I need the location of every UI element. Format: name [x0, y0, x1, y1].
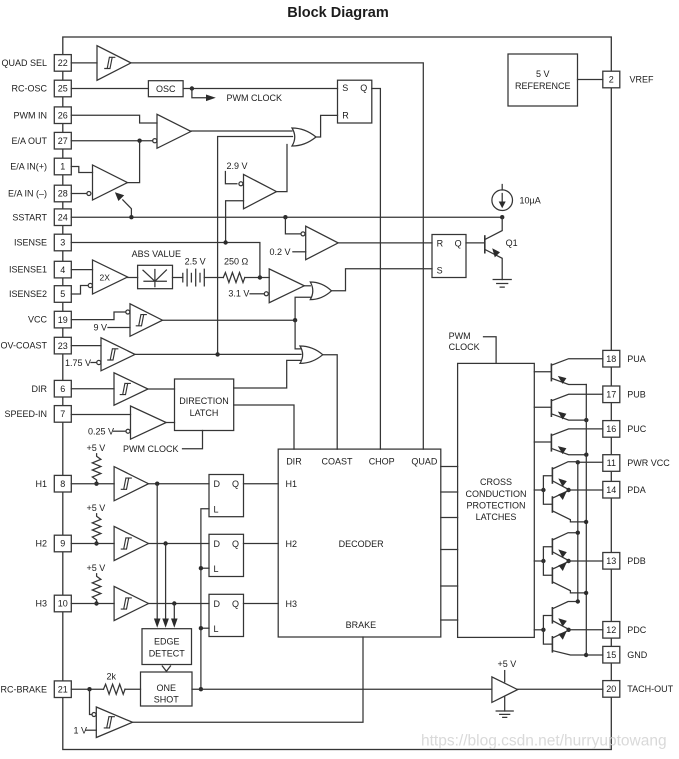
svg-text:CONDUCTION: CONDUCTION — [466, 489, 527, 499]
svg-text:1.75 V: 1.75 V — [65, 358, 91, 368]
wire H2 schmitt to D latch — [149, 543, 210, 545]
bubble OV-COAST comparator input — [97, 360, 101, 364]
wire pin26 PWM IN to E/A comparator — [71, 115, 157, 123]
svg-text:D: D — [214, 599, 221, 609]
svg-text:7: 7 — [60, 409, 65, 419]
svg-text:CLOCK: CLOCK — [449, 342, 480, 352]
svg-text:9 V: 9 V — [94, 323, 108, 333]
or-gate G2 — [310, 282, 331, 300]
wire VCC comp output to OR2 lower input — [163, 297, 311, 320]
svg-text:TACH-OUT: TACH-OUT — [627, 684, 673, 694]
pin 15 GND — [603, 646, 620, 663]
wire OV-COAST comp feedback to OR1 lower input — [218, 137, 293, 355]
svg-text:0.25 V: 0.25 V — [88, 426, 114, 436]
pin 24 SSTART — [54, 209, 71, 226]
schmitt buffer A13 (H2) — [114, 526, 148, 560]
wire 2X to ABS VALUE — [128, 277, 138, 279]
wire L branch to U4 — [201, 627, 209, 629]
block EDGE DETECT — [142, 629, 192, 665]
junction H1 edge-detect branch — [155, 482, 159, 486]
reference 5V REFERENCE — [508, 54, 578, 106]
svg-text:15: 15 — [606, 650, 616, 660]
svg-text:PWM: PWM — [449, 331, 471, 341]
svg-text:VCC: VCC — [28, 315, 48, 325]
svg-text:H2: H2 — [35, 539, 47, 549]
resistor R2 pullup H1 — [92, 454, 101, 484]
wire one-shot to latch L inputs — [201, 509, 209, 689]
junction PUC emitter to rail — [584, 453, 588, 457]
wire 1.75V label to comp bubble — [91, 362, 97, 364]
bubble E/A IN amp inverting input — [87, 192, 91, 196]
svg-text:+5 V: +5 V — [87, 443, 106, 453]
svg-text:R: R — [437, 238, 444, 248]
comparator A11 (SPEED-IN) — [131, 406, 167, 439]
svg-text:PWM CLOCK: PWM CLOCK — [123, 444, 179, 454]
wire pin23 OV-COAST to comp — [71, 345, 101, 347]
wire resistor to 3.1V comp — [245, 277, 269, 279]
svg-text:E/A OUT: E/A OUT — [11, 136, 47, 146]
wire PDB node to pin13 — [569, 560, 603, 562]
transistor pair Q7/Q8 (PDB) — [534, 531, 586, 593]
wire ABS to battery — [173, 277, 183, 279]
pin 7 SPEED-IN — [54, 406, 71, 423]
wire 1V label to schmitt — [86, 729, 96, 731]
junction SSTART 0.2V comp branch — [283, 215, 287, 219]
wire PWM CLOCK to latch bottom — [183, 431, 203, 449]
comparator A7 (3.1V) — [269, 269, 304, 303]
svg-text:PWR VCC: PWR VCC — [627, 458, 670, 468]
bubble E/A comparator inverting input — [153, 139, 157, 143]
svg-text:DIRECTION: DIRECTION — [179, 396, 229, 406]
pin 8 H1 — [54, 475, 71, 492]
latch U4 (D-Q H3) — [209, 594, 244, 636]
wire SSTART net — [71, 216, 502, 218]
junction H2 pullup — [94, 541, 98, 545]
svg-text:DETECT: DETECT — [149, 649, 186, 659]
pin 26 PWM IN — [54, 107, 71, 124]
svg-text:RC-BRAKE: RC-BRAKE — [0, 684, 47, 694]
trim arrow from SSTART node to error amp — [115, 192, 131, 217]
block CROSS CONDUCTION PROTECTION LATCHES — [458, 363, 535, 637]
svg-text:2: 2 — [609, 75, 614, 85]
junction L net at U4 — [199, 626, 203, 630]
pin 21 RC-BRAKE — [54, 681, 71, 698]
svg-text:1: 1 — [60, 162, 65, 172]
svg-text:E/A IN(+): E/A IN(+) — [10, 162, 47, 172]
comparator A4 (2.9V) — [244, 174, 277, 208]
pin 11 PWR VCC — [603, 455, 620, 472]
svg-text:12: 12 — [606, 625, 616, 635]
wire 0.25V label to amp bubble — [114, 430, 127, 432]
value label PWM CLOCK (latches) — [449, 331, 480, 352]
transistor pair Q5/Q6 (PDA) — [534, 462, 586, 522]
latch U3 (D-Q H2) — [209, 534, 244, 576]
svg-text:PWM CLOCK: PWM CLOCK — [227, 93, 283, 103]
battery B1 (2.5V) — [183, 269, 205, 286]
svg-text:COAST: COAST — [322, 456, 354, 466]
wire one shot output to tach buffer — [192, 688, 492, 690]
wire 2.9V comp output up to OR1 — [277, 145, 288, 192]
wire DIR schmitt to direction latch — [148, 388, 175, 390]
transistor Q4 (PUC source driver) — [534, 429, 603, 455]
wire pin10 H3 to schmitt — [71, 603, 114, 605]
wire decoder-latch tick 1 — [441, 466, 458, 468]
wire 1V schmitt output to decoder BRAKE input — [133, 637, 364, 722]
svg-text:QUAD SEL: QUAD SEL — [1, 58, 47, 68]
svg-text:ISENSE1: ISENSE1 — [9, 265, 47, 275]
pin 28 E/A IN(-) — [54, 185, 71, 202]
svg-text:Q: Q — [232, 539, 239, 549]
oscillator OSC — [148, 81, 183, 97]
pin 25 RC-OSC — [54, 80, 71, 97]
svg-text:PUC: PUC — [627, 424, 647, 434]
wire rail to pin15 GND — [586, 654, 603, 656]
wire decoder-latch tick 5 — [441, 585, 458, 587]
svg-text:SSTART: SSTART — [12, 212, 47, 222]
wire H1 schmitt to D latch — [149, 483, 210, 485]
svg-text:2k: 2k — [107, 672, 117, 682]
svg-text:250 Ω: 250 Ω — [224, 257, 249, 267]
schmitt buffer A10 (DIR) — [114, 373, 148, 405]
flip-flop FF2 (R-S latch) — [432, 235, 466, 278]
svg-text:R: R — [342, 111, 349, 121]
svg-text:+5 V: +5 V — [498, 659, 517, 669]
junction L net at one-shot output — [199, 687, 203, 691]
svg-text:ISENSE: ISENSE — [14, 238, 47, 248]
wire pin28 E/A IN(-) to amp — [71, 193, 87, 195]
schmitt buffer A14 (H3) — [114, 586, 148, 620]
svg-text:1 V: 1 V — [74, 725, 88, 735]
bubble 3.1V comparator inverting input — [264, 292, 268, 296]
svg-text:2X: 2X — [100, 273, 111, 283]
svg-text:VREF: VREF — [630, 75, 655, 85]
bubble VCC comparator input — [126, 310, 130, 314]
svg-text:6: 6 — [60, 384, 65, 394]
wire tach buffer ground stub — [504, 697, 506, 711]
svg-text:23: 23 — [58, 341, 68, 351]
pin 20 TACH-OUT — [603, 681, 620, 698]
svg-text:10µA: 10µA — [520, 196, 541, 206]
wire 3.1V comp output to OR2 — [304, 285, 310, 287]
svg-text:Q: Q — [455, 238, 462, 248]
pin 17 PUB — [603, 386, 620, 403]
wire PWM CLOCK to cross conduction latches — [484, 337, 497, 364]
svg-text:11: 11 — [607, 458, 616, 468]
junction OV-COAST feedback to OR1 — [215, 352, 219, 356]
wire 0.2V label to comparator — [293, 251, 306, 253]
wire SPEED-IN comp to direction latch — [166, 422, 174, 424]
pin 27 E/A OUT — [54, 132, 71, 149]
svg-text:QUAD: QUAD — [411, 456, 438, 466]
svg-text:D: D — [214, 539, 221, 549]
wire 9V label to comp — [108, 327, 130, 329]
block DECODER — [278, 449, 441, 637]
op-amp A2 (PWM comparator) — [157, 114, 191, 148]
wire ISENSE node to 2.9V comp plus input — [226, 201, 244, 243]
svg-text:LATCHES: LATCHES — [476, 512, 517, 522]
svg-text:DECODER: DECODER — [339, 539, 385, 549]
svg-text:S: S — [437, 265, 443, 275]
svg-text:14: 14 — [606, 485, 616, 495]
wire OV-COAST comp output to OR3 — [135, 353, 301, 355]
svg-text:9: 9 — [60, 539, 65, 549]
resistor R4 pullup H3 — [92, 574, 101, 604]
wire PWR VCC collector rail — [577, 462, 579, 599]
wire H2 to edge detect with arrow — [162, 544, 169, 628]
wire pin19 VCC to comp bubble — [71, 312, 126, 320]
pin 13 PDB — [603, 553, 620, 570]
svg-text:25: 25 — [58, 84, 68, 94]
svg-text:H1: H1 — [286, 479, 298, 489]
pin 22 QUAD SEL — [54, 55, 71, 72]
pin 6 DIR — [54, 380, 71, 397]
svg-text:PDA: PDA — [627, 485, 646, 495]
junction H1 pullup — [94, 482, 98, 486]
svg-text:L: L — [214, 504, 219, 514]
svg-text:L: L — [214, 624, 219, 634]
svg-text:Block Diagram: Block Diagram — [287, 5, 389, 21]
current source I1 10uA — [492, 185, 513, 211]
wire latch U2 Q to decoder H1 — [244, 483, 279, 485]
svg-text:5: 5 — [60, 289, 65, 299]
resistor R3 pullup H2 — [92, 514, 101, 544]
schmitt comparator A8 (VCC 9V) — [130, 304, 163, 337]
or-gate G1 — [292, 128, 316, 146]
wire pin6 DIR to schmitt — [71, 388, 114, 390]
wire H3 schmitt to D latch — [149, 603, 210, 605]
junction PWM CLOCK stub — [190, 86, 194, 90]
pin 9 H2 — [54, 535, 71, 552]
svg-text:RC-OSC: RC-OSC — [12, 84, 48, 94]
svg-text:H3: H3 — [35, 599, 47, 609]
wire H3 to edge detect with arrow — [171, 604, 178, 628]
comparator A5 (0.2V) — [306, 226, 339, 260]
junction ISENSE to 2.9V comp — [223, 240, 227, 244]
wire VCC node down to OR3 top input — [295, 320, 301, 349]
pin 1 E/A IN(+) — [54, 158, 71, 175]
wire E/A amp output to OR1 — [191, 130, 292, 132]
svg-text:2.9 V: 2.9 V — [227, 161, 248, 171]
wire FF1 Q to decoder CHOP input — [372, 89, 381, 450]
svg-text:Q: Q — [360, 83, 367, 93]
svg-text:OV-COAST: OV-COAST — [0, 341, 47, 351]
pin 3 ISENSE — [54, 234, 71, 251]
svg-text:13: 13 — [606, 556, 616, 566]
wire PDA node to pin14 — [569, 489, 603, 491]
pin 14 PDA — [603, 481, 620, 498]
transistor Q2 (PUA source driver) — [534, 359, 603, 385]
svg-text:OSC: OSC — [156, 84, 176, 94]
wire 0.2V comp output to FF2 R input — [338, 242, 432, 244]
wire 3.1V label to comp bubble — [250, 293, 264, 295]
svg-text:28: 28 — [58, 189, 68, 199]
pin 12 PDC — [603, 622, 620, 639]
junction RC-BRAKE branch — [87, 687, 91, 691]
svg-text:3: 3 — [60, 238, 65, 248]
bubble 0.2V comparator inverting input — [301, 232, 305, 236]
wire latch output to decoder DIR input — [234, 405, 294, 449]
bubble 2.9V comparator inverting input — [239, 182, 243, 186]
svg-text:18: 18 — [606, 354, 616, 364]
resistor R5 2k — [104, 684, 126, 694]
ground symbol at Q1 — [493, 280, 511, 288]
wire OR1 to SR1 R input — [316, 115, 338, 137]
wire OR3 output to decoder COAST input — [323, 355, 337, 449]
wire pin25 to OSC — [71, 88, 148, 90]
pin 23 OV-COAST — [54, 337, 71, 354]
schmitt buffer A12 (H1) — [114, 467, 148, 501]
transistor Q1 — [485, 217, 502, 279]
wire decoder-latch tick 3 — [441, 517, 458, 519]
svg-text:Q1: Q1 — [506, 238, 518, 248]
transistor Q3 (PUB source driver) — [534, 394, 603, 420]
or-gate G3 — [300, 346, 323, 363]
svg-text:L: L — [214, 564, 219, 574]
svg-text:PDB: PDB — [627, 556, 646, 566]
wire PDC node to pin12 — [569, 629, 603, 631]
svg-text:CROSS: CROSS — [480, 477, 512, 487]
wire OSC to SR1 S input (PWM CLOCK net) — [183, 88, 337, 90]
svg-text:PUB: PUB — [627, 389, 646, 399]
wire FF2 Q to Q1 base — [466, 242, 485, 244]
svg-text:EDGE: EDGE — [154, 637, 180, 647]
wire H1 to edge detect with arrow — [154, 484, 161, 628]
wire source-driver emitter rail — [585, 385, 587, 656]
wire tach buffer to pin20 — [518, 688, 603, 690]
pin 19 VCC — [54, 311, 71, 328]
svg-text:16: 16 — [606, 424, 616, 434]
svg-text:8: 8 — [60, 479, 65, 489]
wire decoder-latch tick 2 — [441, 491, 458, 493]
wire pin4 ISENSE1 to 2X amp — [71, 269, 92, 271]
resistor R1 250ohm — [223, 273, 245, 283]
wire QUAD SEL to decoder QUAD input — [131, 63, 423, 449]
wire battery to 250 ohm resistor — [204, 277, 223, 279]
svg-text:20: 20 — [606, 684, 616, 694]
label arrow PWM CLOCK — [192, 89, 216, 102]
wire +5V to tach buffer — [504, 671, 506, 682]
junction L net at U3 — [199, 566, 203, 570]
svg-text:22: 22 — [58, 58, 68, 68]
bubble SPEED-IN comparator input — [126, 429, 130, 433]
svg-text:5 V: 5 V — [536, 69, 550, 79]
svg-text:SHOT: SHOT — [154, 695, 180, 705]
svg-text:4: 4 — [60, 265, 65, 275]
svg-text:21: 21 — [58, 684, 68, 694]
wire pin7 SPEED-IN to amp — [71, 414, 130, 416]
wire ISENSE pin3 net — [71, 243, 260, 278]
wire SSTART to 0.2V comp bubble — [285, 217, 300, 234]
bubble 2X amp inverting input — [88, 283, 92, 287]
junction PDB lower collector to rail — [584, 591, 588, 595]
pin 10 H3 — [54, 595, 71, 612]
wire RC-BRAKE down to 1V schmitt — [90, 689, 93, 714]
svg-text:ABS VALUE: ABS VALUE — [132, 249, 181, 259]
svg-text:24: 24 — [58, 212, 68, 222]
svg-text:PDC: PDC — [627, 625, 647, 635]
svg-text:LATCH: LATCH — [190, 408, 219, 418]
pin 5 ISENSE2 — [54, 286, 71, 303]
wire 2k to one shot — [125, 688, 141, 690]
junction ISENSE summing node — [258, 275, 262, 279]
block DIRECTION LATCH — [175, 379, 234, 431]
junction GND rail — [584, 653, 588, 657]
schmitt comparator A9 (OV-COAST) — [101, 338, 135, 371]
wire L branch to U3 — [201, 567, 209, 569]
bubble 1V schmitt input — [92, 713, 96, 717]
wire reference to pin2 VREF — [578, 79, 603, 81]
svg-text:E/A IN (–): E/A IN (–) — [8, 189, 47, 199]
svg-text:H1: H1 — [35, 479, 47, 489]
pin 4 ISENSE1 — [54, 261, 71, 278]
latch U2 (D-Q H1) — [209, 475, 244, 517]
svg-text:ONE: ONE — [156, 683, 176, 693]
flip-flop FF1 (S-R PWM latch) — [338, 80, 372, 123]
wire pin5 ISENSE2 to 2X amp bubble — [71, 286, 88, 295]
svg-text:17: 17 — [606, 390, 616, 400]
junction SSTART current source node — [500, 215, 504, 219]
svg-text:19: 19 — [58, 315, 68, 325]
svg-text:D: D — [214, 479, 221, 489]
ground symbol at tach buffer — [496, 711, 513, 717]
svg-text:PWM IN: PWM IN — [14, 110, 48, 120]
arrow edge detect to one shot — [162, 666, 170, 671]
junction H2 edge-detect branch — [163, 541, 167, 545]
junction PWR VCC rail top — [576, 460, 580, 464]
amplifier A6 (2X) — [93, 260, 128, 294]
wire pin1 E/A IN(+) to amp — [71, 167, 92, 173]
transistor pair Q9/Q10 (PDC) — [534, 599, 586, 655]
svg-text:S: S — [342, 83, 348, 93]
junction H3 edge-detect branch — [172, 601, 176, 605]
svg-text:SPEED-IN: SPEED-IN — [4, 409, 47, 419]
svg-text:26: 26 — [58, 110, 68, 120]
junction H3 pullup — [94, 601, 98, 605]
wire pin11 PWR VCC to rail — [578, 461, 603, 463]
svg-text:PUA: PUA — [627, 354, 646, 364]
pin 16 PUC — [603, 421, 620, 438]
wire pin8 H1 to schmitt — [71, 483, 114, 485]
schmitt comparator A15 (RC-BRAKE 1V) — [96, 707, 132, 738]
svg-text:0.2 V: 0.2 V — [270, 247, 291, 257]
svg-text:2.5 V: 2.5 V — [185, 257, 206, 267]
junction SSTART trim branch — [129, 215, 133, 219]
svg-text:10: 10 — [58, 599, 68, 609]
svg-text:PROTECTION: PROTECTION — [466, 500, 525, 510]
svg-text:https://blog.csdn.net/hurryupt: https://blog.csdn.net/hurryuptowang — [421, 733, 667, 750]
svg-text:27: 27 — [58, 136, 68, 146]
svg-text:+5 V: +5 V — [87, 563, 106, 573]
wire pin27 E/A OUT to comparator inverting input — [71, 140, 152, 142]
wire decoder-latch tick 6 — [441, 619, 458, 621]
pin 2 VREF — [603, 71, 620, 88]
block ABS VALUE — [138, 265, 173, 288]
wire pin22 to schmitt A1 — [71, 62, 97, 64]
svg-text:BRAKE: BRAKE — [346, 620, 377, 630]
op-amp A3 (error amp) — [93, 165, 128, 200]
junction PDA lower collector to rail — [584, 520, 588, 524]
svg-text:DIR: DIR — [286, 456, 302, 466]
svg-text:Q: Q — [232, 599, 239, 609]
block ONE SHOT — [141, 672, 193, 706]
svg-text:ISENSE2: ISENSE2 — [9, 289, 47, 299]
pin 18 PUA — [603, 350, 620, 367]
wire E/A IN amp output to E/A OUT node — [128, 141, 140, 183]
svg-text:Q: Q — [232, 479, 239, 489]
svg-text:H3: H3 — [286, 599, 298, 609]
wire decoder-latch tick 4 — [441, 549, 458, 551]
wire OR2 output to FF2 S input — [332, 269, 433, 291]
